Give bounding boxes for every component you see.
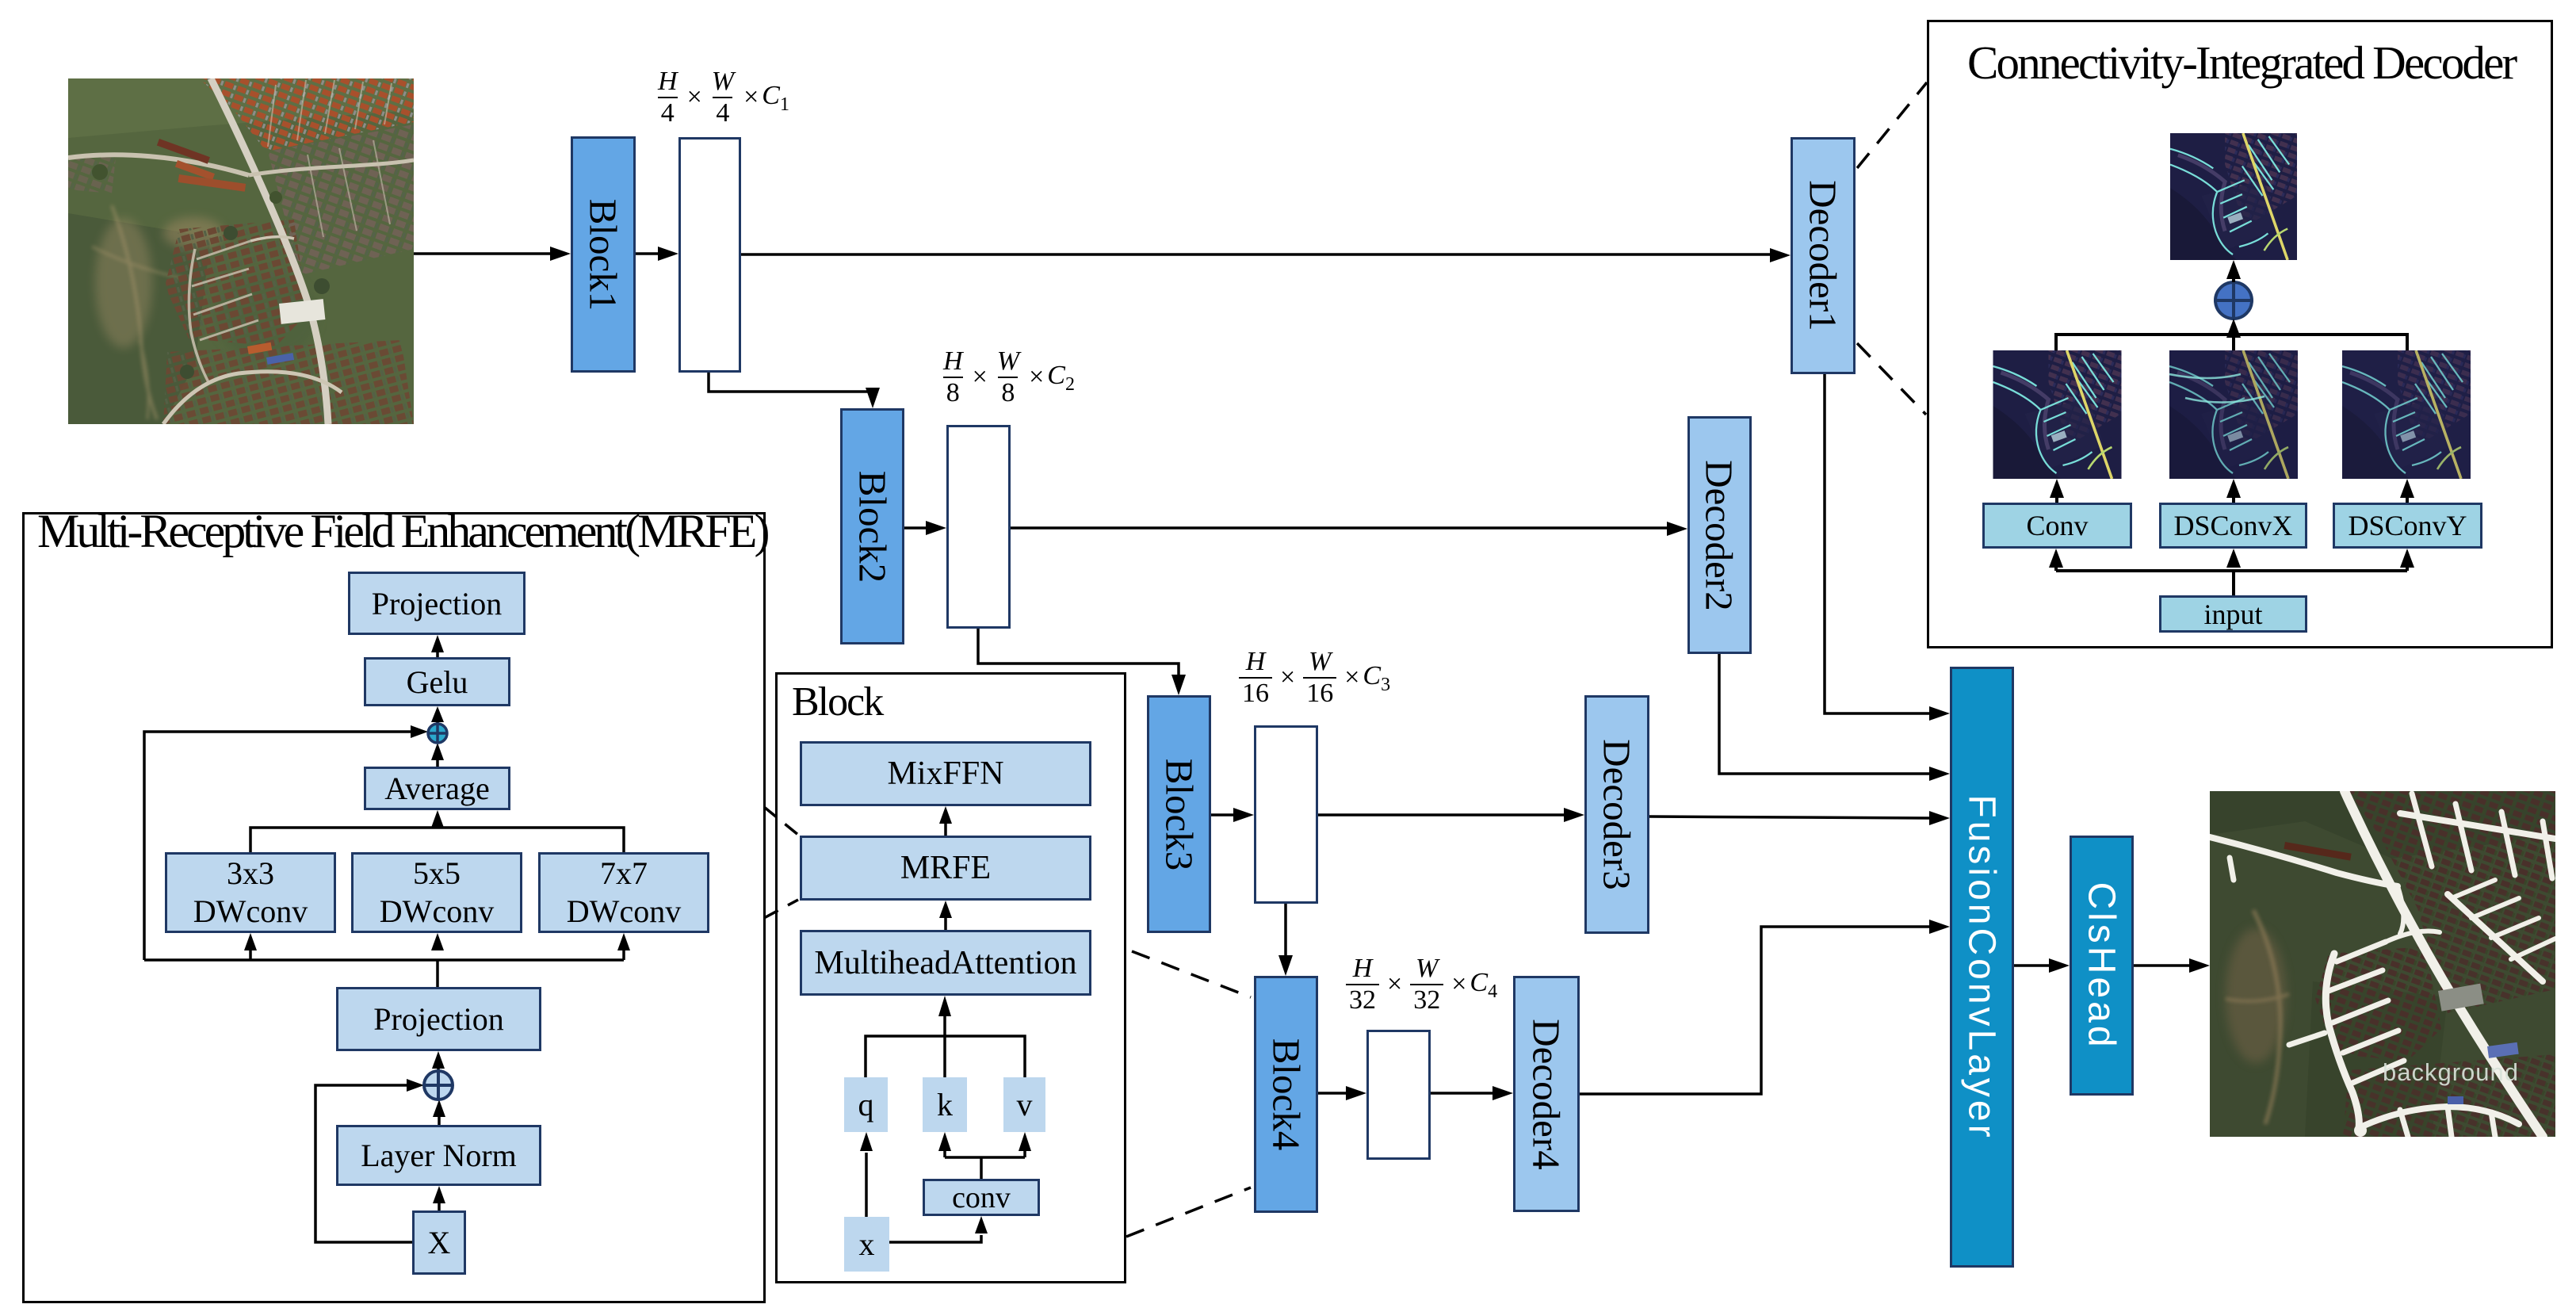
wire adder to fused map — [2226, 260, 2241, 282]
block ClsHead — [2070, 836, 2134, 1096]
wire branch maps to adder — [2056, 319, 2407, 350]
wire Decoder1 to FusionConvLayer — [1825, 374, 1950, 721]
wire DSConvY to right map — [2400, 479, 2414, 503]
block Decoder4 — [1513, 976, 1580, 1212]
wire DWconv outputs to Average — [250, 810, 624, 852]
wire MRFE to MixFFN — [939, 806, 952, 836]
wire upper adder to Gelu — [431, 706, 444, 724]
label H/8 x W/8 x C2 — [937, 346, 1075, 408]
wire feature map 1 to Decoder1 — [741, 248, 1791, 262]
panel MRFE — [22, 512, 766, 1303]
label H/4 x W/4 x C1 — [652, 67, 789, 128]
block input — [2159, 595, 2307, 633]
adder large MRFE — [424, 1071, 453, 1100]
feature map 4 — [1366, 1030, 1431, 1160]
wire qkv join to MultiheadAttention — [866, 996, 1025, 1077]
panel Connectivity-Integrated Decoder — [1927, 20, 2553, 648]
block FusionConvLayer — [1950, 667, 2014, 1268]
wire Block2 to feature map 2 — [904, 521, 946, 535]
wire DSConvX to middle map — [2226, 479, 2241, 503]
block Projection lower — [336, 987, 541, 1051]
wire MultiheadAttention to MRFE — [939, 901, 952, 930]
output segmented image — [2210, 791, 2555, 1137]
block DSConvY — [2333, 503, 2482, 549]
wire Decoder4 to FusionConvLayer — [1580, 920, 1950, 1094]
block Decoder1 — [1791, 137, 1856, 374]
feature map 3 — [1254, 725, 1318, 904]
block Block3 — [1147, 695, 1211, 933]
dashed line Block panel to Block4 upper — [1132, 951, 1251, 997]
wire Block3 to feature map 3 — [1211, 808, 1254, 822]
wire X bypass to adder — [315, 1079, 424, 1242]
wire Block4 to feature map 4 — [1318, 1086, 1366, 1100]
block q — [844, 1077, 888, 1132]
block 3x3 DWconv — [165, 852, 336, 933]
feature map dsconvy branch — [2342, 350, 2471, 479]
block Conv — [1982, 503, 2132, 549]
block MRFE — [800, 836, 1091, 901]
block Projection upper — [348, 572, 526, 635]
wire feature map 3 to Decoder3 — [1318, 808, 1584, 822]
title Block panel — [792, 682, 882, 723]
block Block4 — [1254, 976, 1318, 1213]
wire Layer Norm to adder — [433, 1100, 445, 1125]
feature map fused — [2169, 133, 2298, 260]
adder small MRFE — [428, 724, 447, 743]
wire feature map 4 to Decoder4 — [1431, 1086, 1513, 1100]
wire Conv to left map — [2050, 479, 2064, 503]
block v — [1003, 1077, 1045, 1132]
block Average — [364, 767, 510, 810]
wire x to q — [860, 1132, 873, 1217]
wire FusionConvLayer to ClsHead — [2014, 958, 2070, 973]
input satellite image — [68, 78, 414, 424]
wire input image to Block1 — [414, 247, 571, 261]
title MRFE panel — [37, 507, 766, 555]
block MultiheadAttention — [800, 930, 1091, 996]
wire feature map 1 down to Block2 — [709, 373, 880, 408]
wire Average to upper adder — [431, 743, 444, 767]
feature map dsconvx branch — [2169, 350, 2298, 479]
wire feature map 3 down to Block4 — [1278, 904, 1293, 976]
block MixFFN — [800, 741, 1091, 806]
feature map conv branch — [1993, 350, 2122, 479]
panel Block — [775, 672, 1126, 1283]
dashed line Decoder1 to panel top — [1857, 82, 1927, 168]
wire ClsHead to output image — [2134, 958, 2210, 973]
block DSConvX — [2159, 503, 2307, 549]
wire X to Layer Norm — [433, 1186, 445, 1210]
block Decoder2 — [1687, 416, 1752, 654]
adder connectivity panel — [2215, 282, 2252, 319]
wire feature map 2 to Decoder2 — [1011, 522, 1687, 536]
wire Projection to DWconv branch — [244, 933, 630, 987]
block Block1 — [571, 136, 636, 373]
block Gelu — [364, 657, 510, 706]
wire feature map 2 down to Block3 — [978, 629, 1186, 695]
block k — [923, 1077, 967, 1132]
block Layer Norm — [336, 1125, 541, 1186]
wire skip branch to upper adder — [144, 725, 428, 960]
block conv — [923, 1179, 1040, 1216]
wire input branch to Conv and DSConvY — [2049, 549, 2414, 571]
dashed line MRFE panel to MRFE box upper — [764, 807, 798, 835]
block X — [412, 1210, 466, 1275]
wire input to DSConvX — [2226, 549, 2241, 595]
wire adder to Projection lower — [432, 1051, 445, 1071]
wire Decoder2 to FusionConvLayer — [1719, 654, 1950, 781]
block Decoder3 — [1584, 695, 1649, 934]
title Connectivity-Integrated Decoder — [1967, 40, 2515, 86]
wire x to conv — [889, 1216, 988, 1242]
block x lower — [844, 1217, 889, 1272]
dashed line Decoder1 to panel bottom — [1857, 343, 1926, 415]
wire Decoder3 to FusionConvLayer — [1649, 811, 1950, 825]
feature map 2 — [946, 425, 1011, 629]
dashed line Block panel to Block4 lower — [1126, 1188, 1251, 1237]
wire conv to k and v — [938, 1132, 1031, 1179]
wire Gelu to Projection upper — [431, 635, 444, 657]
dashed line MRFE panel to MRFE box lower — [764, 900, 798, 918]
label H/32 x W/32 x C4 — [1341, 954, 1497, 1015]
block 7x7 DWconv — [538, 852, 709, 933]
wire Block1 to feature map 1 — [636, 247, 678, 261]
feature map 1 — [678, 137, 741, 373]
block Block2 — [840, 408, 904, 644]
block 5x5 DWconv — [351, 852, 522, 933]
svg-text:background: background — [2383, 1058, 2519, 1086]
label H/16 x W/16 x C3 — [1234, 647, 1390, 709]
